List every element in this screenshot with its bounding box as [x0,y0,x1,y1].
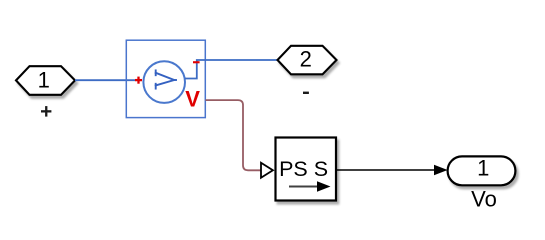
arrowhead at outport [434,165,448,175]
converter arrow icon [289,186,319,188]
label + under port 1 [41,106,51,117]
PS input triangle port of converter [261,163,273,178]
svg-text:V: V [185,87,200,112]
wire port1 to voltage sensor + terminal [75,79,136,81]
svg-text:Vo: Vo [471,187,497,212]
outport 1 oval [448,156,516,185]
voltage sensor chevron icon [156,70,176,88]
sensor + terminal marker [135,77,142,84]
voltage sensor circle [143,61,185,103]
PS-Simulink converter block [276,138,337,201]
svg-text:1: 1 [477,156,489,181]
label - under port 2 [303,92,309,94]
port 1 hexagon (Conn1 +) [16,66,75,95]
svg-text:PS S: PS S [279,157,328,181]
wire sensor circle to - terminal and to port 2 [185,60,278,79]
PS signal wire sensor V to converter [206,100,261,170]
svg-text:2: 2 [300,46,312,71]
port 2 hexagon (Conn2 -) [278,46,337,75]
svg-text:1: 1 [38,67,50,92]
sensor - terminal marker [193,61,200,63]
wire converter to outport Vo [336,169,441,171]
voltage sensor block outline U1 [126,40,205,117]
